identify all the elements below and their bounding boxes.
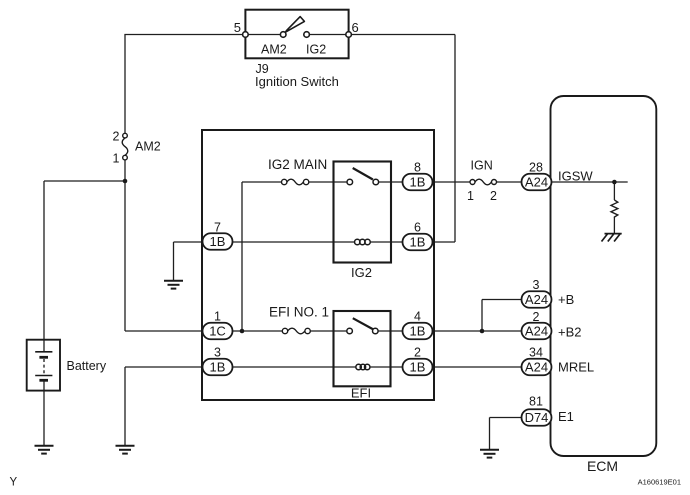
svg-text:ECM: ECM <box>587 458 618 474</box>
svg-text:1: 1 <box>467 189 474 203</box>
resistor R inside ECM <box>611 200 618 218</box>
svg-text:Y: Y <box>10 477 18 489</box>
svg-text:2: 2 <box>414 346 421 360</box>
fuse AM2 (vertical) <box>122 133 128 160</box>
wire IGSW inside ECM <box>552 181 628 183</box>
wire 8/1B to IGN fuse <box>433 181 471 183</box>
svg-text:81: 81 <box>529 395 543 409</box>
wire 1C to EFI NO.1 fuse <box>233 330 283 332</box>
ignition switch terminal pin 5 <box>243 32 249 38</box>
wire EFI relay contact to box edge <box>378 330 402 332</box>
wire ignition switch pin 6 to right <box>349 34 455 36</box>
svg-text:7: 7 <box>214 221 221 235</box>
svg-text:+B: +B <box>558 292 574 307</box>
svg-text:5: 5 <box>234 20 241 35</box>
svg-text:28: 28 <box>529 161 543 175</box>
svg-text:1B: 1B <box>410 324 426 339</box>
relay box IG2 <box>334 162 392 263</box>
svg-text:1B: 1B <box>410 175 426 190</box>
relay IG2 contact left <box>347 179 353 185</box>
connector 3/A24 <box>522 291 552 308</box>
svg-text:Ignition Switch: Ignition Switch <box>255 74 339 89</box>
ignition switch lever <box>285 17 304 33</box>
wire 3/1B to left <box>125 366 203 368</box>
svg-text:1: 1 <box>113 152 120 166</box>
svg-text:AM2: AM2 <box>135 140 161 154</box>
svg-text:A24: A24 <box>525 175 548 190</box>
wire IG2 MAIN fuse to IG2 relay <box>309 181 347 183</box>
relay IG2 blade <box>353 168 373 180</box>
ignition switch box J9 <box>245 10 348 59</box>
connector 81/D74 <box>522 409 552 426</box>
wire 7/1B to ground horizontal <box>174 241 203 243</box>
connector 4/1B <box>403 323 433 340</box>
relay EFI contact left <box>347 328 353 334</box>
junction node at IGSW resistor <box>612 180 617 185</box>
svg-text:D74: D74 <box>525 410 549 425</box>
junction node at +B branch <box>480 329 485 334</box>
svg-text:34: 34 <box>529 346 543 360</box>
relay EFI contact right <box>373 328 379 334</box>
svg-text:AM2: AM2 <box>261 43 287 57</box>
fuse EFI NO. 1 <box>282 328 310 334</box>
svg-text:EFI NO. 1: EFI NO. 1 <box>269 305 329 320</box>
wire battery negative to ground <box>43 381 45 446</box>
wire ignition switch internal left segment <box>245 34 280 36</box>
svg-text:1: 1 <box>214 310 221 324</box>
wire 4/1B to 2/A24 (+B2 line) <box>433 330 522 332</box>
ignition switch terminal IG2 <box>304 32 310 38</box>
wire +B branch horizontal to 3/A24 <box>482 299 522 301</box>
wire resistor to chassis ground <box>613 218 615 234</box>
wire left vertical from pin 5 down to fuse AM2 <box>124 35 126 134</box>
fuse IGN <box>470 179 497 185</box>
wire +B branch vertical <box>481 300 483 332</box>
wire into connector 6/1B <box>433 241 456 243</box>
wire branch vertical x=242 up to IG2 MAIN <box>241 182 243 331</box>
ground below battery <box>35 446 54 454</box>
svg-text:3: 3 <box>214 346 221 360</box>
chassis ground inside ECM <box>602 234 622 242</box>
junction node at 1C branch <box>240 329 245 334</box>
svg-text:2: 2 <box>113 130 120 144</box>
fuse IG2 MAIN <box>282 179 309 185</box>
svg-text:A24: A24 <box>525 324 548 339</box>
relay EFI coil <box>356 364 370 370</box>
ignition switch terminal pin 6 <box>346 32 352 38</box>
relay IG2 coil <box>355 239 371 245</box>
svg-text:IGSW: IGSW <box>558 169 593 184</box>
battery box <box>27 340 60 391</box>
relay EFI blade <box>353 318 373 329</box>
svg-text:1B: 1B <box>410 235 426 250</box>
svg-text:8: 8 <box>414 161 421 175</box>
svg-text:6: 6 <box>414 221 421 235</box>
svg-text:E1: E1 <box>558 409 574 424</box>
svg-text:IG2: IG2 <box>351 265 372 280</box>
junction node at AM2/battery <box>123 179 128 184</box>
relay box EFI <box>334 311 391 386</box>
svg-text:+B2: +B2 <box>558 324 582 339</box>
wire below fuse AM2 down to corner <box>124 160 126 331</box>
svg-text:IG2: IG2 <box>306 43 326 57</box>
svg-text:1C: 1C <box>209 324 226 339</box>
wire EFI fuse to EFI relay <box>310 330 347 332</box>
connector 34/A24 <box>522 359 552 376</box>
svg-text:4: 4 <box>414 310 421 324</box>
ground below left vertical (EFI relay coil ground) <box>116 446 135 454</box>
relay IG2 contact right <box>373 179 379 185</box>
connector 7/1B <box>203 233 233 250</box>
wire IGN fuse to 28/A24 <box>497 181 522 183</box>
wire EFI coil to 2/1B <box>370 366 403 368</box>
svg-text:EFI: EFI <box>351 386 371 401</box>
wire top-left horizontal to ignition switch pin 5 <box>124 34 245 36</box>
wire junction to battery horizontal <box>44 180 125 182</box>
wire 7/1B to IG2 relay coil row <box>233 241 355 243</box>
battery cell long plate 2 <box>35 375 52 377</box>
connector 8/1B <box>403 174 433 191</box>
wire to IG2 MAIN fuse <box>242 181 282 183</box>
wire corner into connector 1/1C <box>125 330 203 332</box>
wire IG2 coil to 6/1B <box>370 241 402 243</box>
battery cell long plate 1 <box>35 351 52 353</box>
svg-text:2: 2 <box>533 310 540 324</box>
connector 1/1C <box>203 323 233 340</box>
svg-text:3: 3 <box>533 278 540 292</box>
main relay/fuse block box <box>202 130 434 400</box>
svg-text:1B: 1B <box>410 360 426 375</box>
svg-text:Battery: Battery <box>67 359 107 373</box>
svg-text:1B: 1B <box>210 360 226 375</box>
wire right vertical from pin 6 down <box>454 35 456 243</box>
wire 2/1B to 34/A24 (MREL line) <box>433 366 522 368</box>
wire left vertical to ground below 3/1B <box>124 367 126 446</box>
svg-text:A160619E01: A160619E01 <box>638 478 681 487</box>
connector 6/1B <box>403 234 433 251</box>
connector 3/1B <box>203 359 233 376</box>
ignition switch terminal AM2 <box>280 32 286 38</box>
connector 2/1B <box>403 359 433 376</box>
svg-text:6: 6 <box>352 20 359 35</box>
svg-text:MREL: MREL <box>558 360 594 375</box>
ground below 7/1B <box>164 281 183 289</box>
battery cell short plate 1 <box>39 356 48 359</box>
ground below E1 <box>480 450 499 458</box>
svg-text:A24: A24 <box>525 292 548 307</box>
wire ignition switch internal middle segment <box>309 34 348 36</box>
wire 7/1B ground vertical <box>173 242 175 281</box>
connector 2/A24 <box>522 323 552 340</box>
wire IG2 relay contact to 8/1B <box>379 181 403 183</box>
wire battery vertical feed <box>43 181 45 352</box>
wire E1 from D74 horizontal <box>490 417 522 419</box>
battery cell short plate 2 <box>39 379 48 382</box>
wire 3/1B to EFI relay coil row <box>233 366 356 368</box>
battery dashed middle link <box>43 359 45 375</box>
svg-text:A24: A24 <box>525 360 548 375</box>
svg-text:1B: 1B <box>210 234 226 249</box>
svg-text:2: 2 <box>490 189 497 203</box>
connector 28/A24 <box>522 174 552 191</box>
wire E1 vertical to ground <box>489 418 491 450</box>
svg-text:IG2 MAIN: IG2 MAIN <box>268 157 327 172</box>
wire IGSW resistor drop upper <box>613 182 615 200</box>
ECM box <box>551 96 657 456</box>
svg-text:IGN: IGN <box>471 159 493 173</box>
